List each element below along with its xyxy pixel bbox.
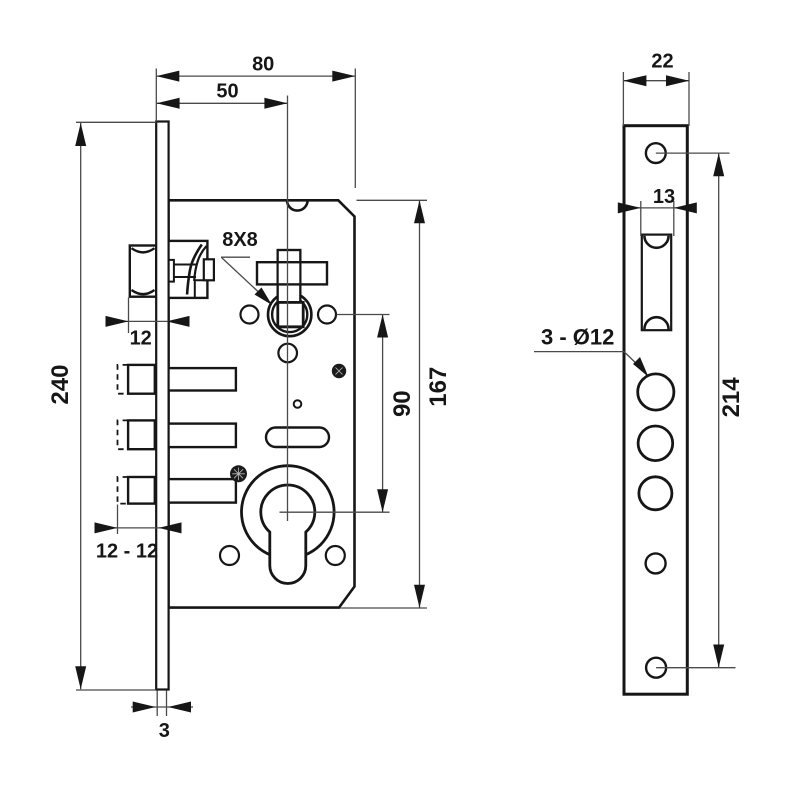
latch head top cap arc — [132, 248, 155, 252]
latch slot top dimple — [644, 236, 668, 248]
follower row extension line — [337, 314, 390, 316]
follower vertical bar edges redrawn — [278, 250, 301, 327]
faceplate strip front view — [156, 122, 168, 690]
deadbolt row A head — [128, 365, 155, 394]
svg-text:240: 240 — [47, 365, 74, 405]
arrow 167 top — [414, 200, 425, 223]
svg-text:90: 90 — [389, 390, 416, 417]
svg-text:12 - 12: 12 - 12 — [96, 541, 158, 563]
svg-text:3: 3 — [159, 720, 170, 742]
arrow 22 right — [666, 75, 689, 86]
follower left circle — [241, 306, 259, 324]
bottom screw hole — [646, 658, 666, 678]
latch mid band top — [174, 264, 196, 266]
arrow 13 left (points right) — [618, 202, 641, 213]
tiny hole — [294, 400, 302, 408]
latch spring curl inner — [194, 246, 206, 281]
arrow 22 left — [623, 75, 646, 86]
dim 80 right extension — [354, 69, 356, 189]
svg-text:13: 13 — [653, 186, 675, 208]
latch body right protrusion — [204, 259, 214, 280]
latch bottom-right step — [195, 280, 204, 298]
latch head bottom cap arc — [132, 290, 155, 294]
follower outer circle — [268, 293, 311, 336]
dim 3 right extension — [166, 691, 168, 717]
dim 167 top extension — [357, 199, 428, 201]
arrow 13 right (points left) — [674, 202, 697, 213]
dim 12 extension — [128, 298, 130, 334]
dim 90 line — [382, 315, 384, 513]
latch body — [167, 241, 207, 298]
3-Ø12 leader underline — [534, 351, 624, 353]
arrow 12 right (points left) — [167, 316, 190, 327]
deadbolt row C head — [128, 477, 155, 504]
latch body left guide — [167, 260, 174, 282]
cylinder left circle — [220, 546, 239, 565]
arrow 90 bottom — [377, 489, 388, 512]
dim 240 top extension — [76, 121, 156, 123]
dim 240 line — [80, 123, 82, 689]
dim 22 line — [623, 80, 689, 82]
follower vertical bar — [278, 250, 301, 327]
arrow 90 top — [377, 315, 388, 338]
3-Ø12 leader arrowhead — [633, 357, 649, 377]
svg-text:50: 50 — [216, 81, 238, 103]
oval slot — [266, 428, 329, 448]
svg-text:12: 12 — [130, 328, 152, 350]
3-Ø12 leader diagonal — [624, 352, 642, 369]
arrow 240 bottom — [75, 666, 86, 689]
dim 13 left extension — [640, 201, 642, 236]
dim 3 line — [131, 706, 193, 708]
follower horizontal bar — [257, 262, 327, 284]
svg-text:214: 214 — [718, 377, 745, 418]
euro profile cutout — [261, 485, 315, 584]
arrow 80 left — [156, 71, 179, 82]
deadbolt row B hidden dashes — [118, 420, 129, 449]
latch spring curl outer — [187, 245, 202, 295]
latch mid band bottom — [174, 276, 196, 278]
dim 50 line — [157, 102, 288, 104]
arrow 50 right — [264, 98, 287, 109]
small hole — [646, 553, 666, 573]
svg-text:3 - Ø12: 3 - Ø12 — [541, 324, 614, 349]
dim 22 left extension — [622, 72, 624, 126]
arrow 80 right — [332, 71, 355, 82]
dim 214 line — [718, 153, 720, 667]
arrow 167 bottom — [414, 585, 425, 608]
circle below follower — [278, 344, 297, 363]
arrow 12-12 right — [159, 522, 182, 533]
dim 167 line — [419, 200, 421, 608]
dim 80 line — [156, 75, 355, 77]
arrow 214 top — [713, 153, 724, 176]
latch slot rectangle — [642, 235, 671, 331]
deadbolt row A tail — [167, 368, 236, 390]
8X8 leader underline — [221, 256, 250, 258]
deadbolt row C tail — [167, 479, 236, 503]
dim 12-12 line — [95, 527, 181, 529]
deadbolt row B tail — [167, 424, 236, 448]
screw upper right — [332, 364, 346, 378]
svg-text:8X8: 8X8 — [222, 229, 258, 251]
arrow 3 right — [168, 702, 191, 713]
latch head — [130, 246, 156, 297]
dim 13 right extension — [673, 201, 675, 236]
bottom hole extension line — [656, 667, 735, 669]
dim 12 line — [106, 320, 188, 322]
lock case outline — [169, 200, 355, 607]
dim 3 left extension — [156, 691, 158, 717]
latch slot bottom dimple — [644, 317, 668, 329]
dim 22 right extension — [688, 72, 690, 126]
bolt hole 2 — [638, 426, 673, 461]
cylinder horizontal centerline — [280, 511, 390, 513]
dim 13 line — [618, 207, 696, 209]
arrow 12 left (points right) — [106, 316, 129, 327]
svg-text:167: 167 — [425, 367, 452, 407]
bolt hole 1 — [638, 374, 674, 410]
deadbolt row A hidden dashes — [118, 365, 129, 394]
deadbolt row C hidden dashes — [118, 477, 129, 504]
bolt hole 3 — [639, 477, 672, 510]
cylinder right circle — [326, 546, 345, 565]
follower right circle — [318, 306, 336, 324]
arrow 12-12 left — [95, 522, 118, 533]
svg-text:22: 22 — [651, 51, 673, 73]
right view thin lines — [534, 72, 736, 668]
arrow 214 bottom — [713, 645, 724, 668]
arrow 50 left — [157, 98, 180, 109]
cylinder hole outer circle — [241, 466, 334, 559]
8X8 leader diagonal — [222, 258, 267, 300]
follower inner circle — [272, 297, 307, 332]
vertical centerline through follower and cylinder — [287, 96, 289, 522]
arrow 240 top — [75, 123, 86, 146]
deadbolt row B head — [128, 420, 155, 449]
dim 167 bottom extension — [340, 607, 427, 609]
svg-text:80: 80 — [252, 54, 274, 76]
top hole extension line — [656, 152, 730, 154]
8X8 leader arrowhead — [255, 288, 273, 306]
top edge notch — [287, 200, 308, 210]
follower 8x8 square — [278, 302, 303, 326]
top screw hole — [646, 143, 666, 163]
screw lower left — [230, 465, 247, 482]
dim 12-12 extension — [117, 505, 119, 535]
faceplate plate — [624, 126, 687, 695]
dim 240 bottom extension — [76, 689, 156, 691]
arrow 3 left — [133, 702, 156, 713]
dim 80 left extension — [155, 69, 157, 122]
